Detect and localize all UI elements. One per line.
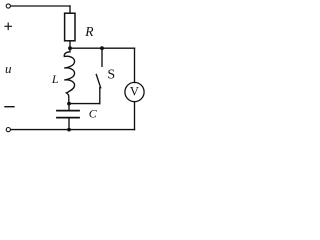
wire resistor bottom stub xyxy=(69,41,71,48)
terminal top-left xyxy=(6,4,10,8)
wire right vertical lower xyxy=(134,102,136,130)
svg-text:u: u xyxy=(5,61,12,76)
terminal bottom-left xyxy=(6,128,10,132)
wire mid horizontal xyxy=(70,47,135,49)
switch S blade xyxy=(96,75,100,88)
node below R xyxy=(68,46,72,50)
svg-text:V: V xyxy=(130,84,139,98)
switch S bottom terminal xyxy=(99,88,101,104)
capacitor bottom stub xyxy=(68,118,70,130)
plus sign xyxy=(5,23,11,30)
svg-text:R: R xyxy=(84,24,94,39)
voltmeter V body xyxy=(125,82,144,101)
capacitor C bottom plate xyxy=(57,117,79,119)
wire resistor top stub xyxy=(69,6,71,13)
wire junction to switch bottom xyxy=(69,103,100,105)
switch S top terminal xyxy=(101,48,103,66)
node capacitor bottom xyxy=(67,128,71,132)
wire bottom rail xyxy=(11,129,135,131)
inductor L coil xyxy=(64,48,74,103)
capacitor top stub xyxy=(68,104,70,111)
node switch top xyxy=(100,46,104,50)
resistor R1 body xyxy=(65,13,75,41)
svg-text:S: S xyxy=(107,68,115,83)
svg-text:L: L xyxy=(51,72,59,86)
minus sign xyxy=(5,106,14,108)
svg-text:C: C xyxy=(89,107,98,121)
capacitor C top plate xyxy=(57,110,79,112)
node L-C junction xyxy=(67,102,71,106)
wire top horizontal xyxy=(11,5,70,7)
wire right vertical upper xyxy=(134,48,136,82)
